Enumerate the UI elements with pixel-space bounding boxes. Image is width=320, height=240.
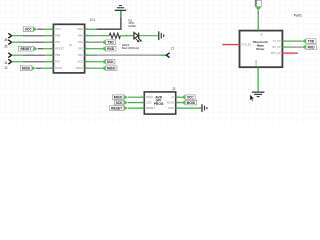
wire J4 to IC1 PB2 (12, 54, 49, 56)
IC1 right pin name labels (76, 27, 83, 70)
net flag SCK (at J2) (114, 100, 128, 105)
LED1 diode symbol (134, 33, 139, 39)
net flag SCK (near IC1) (101, 59, 115, 64)
svg-text:5V: 5V (260, 33, 264, 36)
wire IC1 PA0 to resistor R1 (90, 35, 110, 37)
wire IC1 GND run (dark) (97, 11, 121, 29)
svg-text:VCC: VCC (25, 27, 33, 31)
net flag RXD (near IC1) (101, 46, 116, 51)
connector J1 arrow (166, 53, 169, 58)
ground symbol (right of LED1, rotated) (158, 31, 164, 40)
wire SCK flag to J2 pin 3 (128, 102, 139, 104)
IC1 left pin name labels (55, 27, 64, 70)
svg-text:SCK: SCK (146, 100, 152, 104)
svg-text:Red (633nm): Red (633nm) (122, 46, 140, 50)
svg-text:PB2: PB2 (55, 53, 60, 57)
svg-text:TXD: TXD (107, 40, 114, 44)
bendpoint node at GND corner (96, 28, 98, 30)
svg-text:MISO: MISO (76, 66, 83, 70)
wire RESET flag to IC1 pin 4 (38, 48, 44, 50)
svg-text:MISO: MISO (107, 66, 116, 70)
svg-text:PA0: PA0 (78, 34, 83, 38)
svg-text:VCC: VCC (254, 0, 258, 6)
wire IC1 PA2 to RXD flag (90, 48, 102, 50)
svg-text:MOSI: MOSI (22, 66, 31, 70)
svg-text:VCC: VCC (187, 95, 195, 99)
wire J5 to IC1 PB1 (12, 41, 49, 43)
svg-text:PA2: PA2 (78, 47, 83, 51)
resistor R1 zigzag (109, 33, 120, 38)
wire VCC flag to IC1 pin 1 (37, 28, 43, 30)
ground symbol GND (top, rotated 180) (115, 5, 127, 11)
svg-text:J6: J6 (4, 38, 8, 42)
bendpoint node between R1 and LED1 (126, 35, 128, 37)
wire IC1 MISO to MISO flag (90, 67, 102, 69)
net flag MOSI (left of IC1) (20, 66, 36, 71)
svg-text:IC: IC (69, 43, 72, 47)
wire J3 to IC1 PA7 (12, 61, 49, 63)
svg-text:J5: J5 (4, 45, 8, 49)
connector J3 arrow (8, 59, 11, 64)
wire IC1 SCK to SCK flag (90, 61, 102, 63)
net flag RESET (18, 46, 37, 51)
wire RTS_5V stub (red) (282, 52, 297, 54)
svg-text:MISO: MISO (146, 95, 153, 99)
J2 pin numbers (141, 95, 179, 108)
svg-text:Silver: Silver (256, 47, 265, 51)
svg-text:J2: J2 (172, 87, 176, 91)
svg-text:Part1: Part1 (294, 14, 302, 18)
IC1 right pin numbers (85, 27, 88, 68)
svg-text:SCK: SCK (107, 60, 115, 64)
svg-text:PROG: PROG (154, 102, 164, 106)
net flag VCC (at J2) (181, 95, 195, 100)
svg-text:RXD: RXD (308, 45, 316, 49)
svg-text:220Ω: 220Ω (128, 24, 136, 28)
svg-text:RTS_5V: RTS_5V (271, 51, 281, 55)
wire J6 to IC1 PB0 (12, 35, 49, 37)
svg-text:TX_5V: TX_5V (273, 39, 281, 43)
wire green end at J1 (160, 54, 167, 56)
net flag MOSI (at J2) (181, 100, 197, 105)
wire MISO flag to J2 pin 1 (128, 96, 139, 98)
wire LED1 cathode to ground (139, 35, 158, 37)
net flag VCC (left of IC1) (23, 27, 37, 32)
LED1 label (122, 43, 140, 50)
wire Part1 GND pin to ground (257, 67, 259, 91)
svg-text:GND: GND (77, 27, 83, 31)
svg-text:RX_5V: RX_5V (272, 45, 280, 49)
svg-text:J4: J4 (4, 61, 8, 65)
svg-text:SCK: SCK (77, 60, 83, 64)
J2 right pin stubs (176, 97, 181, 108)
svg-text:J1: J1 (171, 46, 175, 50)
net flag VCC (top, rotated) (254, 0, 262, 11)
Part1 right pin stubs (282, 41, 286, 47)
svg-text:PB0: PB0 (55, 34, 60, 38)
wire green stem below top ground (120, 11, 122, 18)
net flag RXD (right) (302, 45, 317, 50)
svg-text:PB1: PB1 (55, 40, 60, 44)
svg-text:SCK: SCK (116, 101, 124, 105)
svg-text:MOSI: MOSI (187, 101, 196, 105)
svg-text:VCC: VCC (55, 27, 61, 31)
wire IC1 GND pin to top ground (green end) (90, 28, 97, 30)
wire J2 +5 to VCC flag (181, 96, 185, 98)
IC1 right pin stubs (pins 14-8) (85, 29, 90, 68)
wire Part1 RX_5V to RXD flag (286, 46, 302, 48)
svg-text:RXD: RXD (107, 47, 115, 51)
R1 value label (128, 18, 136, 28)
connector J4 arrow (8, 53, 11, 58)
svg-text:IC1: IC1 (90, 18, 95, 22)
connector J2 body (AVR SPI PROG) (144, 92, 175, 114)
IC IC1 body (ATtiny) (53, 24, 84, 73)
wire R1 to LED1 (120, 35, 134, 37)
wire RESET flag to J2 pin 5 (128, 107, 139, 109)
net flag TXD (near IC1) (101, 40, 115, 45)
svg-text:RESET: RESET (55, 47, 64, 51)
net flag MISO (at J2) (112, 95, 128, 100)
net flag RESET (at J2) (109, 106, 128, 111)
wire J2 GND to ground (181, 107, 202, 109)
IC1 left pin stubs (pins 1-7) (48, 29, 53, 68)
mouse cursor (250, 94, 254, 101)
svg-text:GND: GND (254, 60, 258, 66)
svg-text:PA3: PA3 (78, 53, 83, 57)
svg-text:CTS_5V: CTS_5V (241, 42, 251, 46)
svg-text:J3: J3 (4, 66, 8, 70)
wire J2 MOSI to MOSI flag (181, 102, 185, 104)
ground symbol (below Part1) (252, 92, 265, 98)
Part1 Bluetooth Mate Silver body (240, 31, 283, 68)
svg-text:RESET: RESET (111, 106, 122, 110)
svg-text:GND: GND (168, 106, 174, 110)
ground symbol (right of J2, rotated) (201, 104, 207, 112)
svg-text:MOSI: MOSI (167, 100, 174, 104)
IC1 left pin numbers (51, 27, 53, 68)
svg-text:RESET: RESET (21, 47, 32, 51)
svg-text:MISO: MISO (114, 95, 123, 99)
wire IC1 PA3 to J1 (light grey run) (97, 54, 160, 56)
svg-text:TXD: TXD (308, 39, 315, 43)
connector J5 arrow (8, 40, 11, 45)
wire VCC flag to Part1 5V pin (257, 11, 259, 31)
wire MOSI flag to IC1 PA6 (36, 67, 42, 69)
svg-text:RESET: RESET (146, 106, 155, 110)
svg-text:PA1: PA1 (78, 40, 83, 44)
wire Part1 TX_5V to TXD flag (286, 40, 302, 42)
wire CTS_5V (red, left of Part1) (222, 44, 239, 46)
svg-text:PA7: PA7 (55, 60, 60, 64)
wire IC1 PA1 to TXD flag (90, 41, 102, 43)
LED1 emission arrows (136, 38, 142, 43)
connector J6 arrow (8, 33, 11, 38)
svg-text:MOSI: MOSI (55, 66, 62, 70)
net flag TXD (right) (302, 39, 316, 44)
wire IC1 PA3 to connector J1 (green end) (90, 54, 97, 56)
J2 left pin stubs (139, 97, 144, 108)
net flag MISO (near IC1) (101, 66, 117, 71)
